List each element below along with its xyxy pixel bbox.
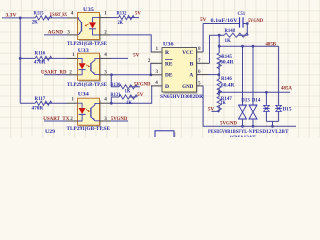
svg-text:5V: 5V bbox=[137, 92, 144, 98]
adjacent part box bottom bbox=[156, 132, 175, 139]
svg-text:R148: R148 bbox=[225, 28, 236, 34]
wire RE riser to U36 pin2 bbox=[150, 63, 153, 75]
svg-text:U36: U36 bbox=[163, 41, 174, 47]
U35 emission arrow bbox=[86, 24, 89, 25]
junction bus/R116 bbox=[19, 57, 22, 60]
wire B riser to R148 bbox=[210, 35, 225, 63]
wire R132 to 5V bbox=[128, 17, 140, 19]
wire 485A line bbox=[219, 91, 290, 93]
svg-text:5V: 5V bbox=[208, 106, 215, 112]
svg-text:U29: U29 bbox=[45, 129, 55, 135]
svg-text:B: B bbox=[190, 61, 194, 67]
svg-text:4: 4 bbox=[155, 80, 158, 86]
svg-text:5VGND: 5VGND bbox=[111, 116, 128, 122]
svg-text:GND: GND bbox=[182, 84, 193, 90]
wire bus to R116 to U33 pin1 bbox=[20, 57, 67, 59]
junction 485B/D13 bbox=[241, 45, 244, 48]
wire VCC riser bbox=[202, 24, 204, 53]
svg-text:R115: R115 bbox=[34, 11, 44, 17]
svg-text:8: 8 bbox=[198, 46, 201, 52]
wire USART_RD to U33 pin2 bbox=[44, 74, 67, 76]
junction 485B/D14 bbox=[252, 45, 255, 48]
svg-text:U34: U34 bbox=[78, 91, 89, 97]
wire chain riser bbox=[218, 35, 220, 46]
svg-text:4: 4 bbox=[104, 97, 107, 103]
resistor R148 bbox=[224, 33, 248, 37]
svg-text:1K: 1K bbox=[225, 38, 232, 44]
wire 485B line bbox=[219, 45, 278, 47]
wire 5V top rail bbox=[203, 23, 248, 25]
resistor R116 bbox=[35, 56, 52, 60]
svg-text:2K: 2K bbox=[32, 20, 39, 26]
resistor R132 bbox=[111, 17, 119, 19]
wire D14 to rail bbox=[252, 119, 254, 126]
svg-text:5V: 5V bbox=[135, 11, 141, 17]
U34 emission arrow bbox=[86, 109, 89, 110]
IC U36 SN65HVD3082DR bbox=[164, 49, 197, 93]
resistor R130 bbox=[111, 75, 119, 87]
wire R115 to U35 pin4 bbox=[45, 17, 67, 19]
svg-text:1: 1 bbox=[104, 10, 107, 16]
wire U33 pin3 to U36 pin3 DE bbox=[111, 74, 153, 76]
svg-text:1K: 1K bbox=[220, 100, 226, 106]
junction chain top bbox=[218, 34, 221, 37]
svg-text:SN65HVD3082DR: SN65HVD3082DR bbox=[160, 94, 203, 100]
wire GND riser and 5VGND rail bbox=[203, 86, 296, 126]
svg-text:60.4R: 60.4R bbox=[220, 60, 233, 66]
wire 485B to D14 bbox=[252, 46, 254, 105]
wire D15 common leg bbox=[266, 121, 278, 126]
svg-text:5VGND: 5VGND bbox=[220, 121, 237, 127]
svg-text:60.4R: 60.4R bbox=[221, 82, 234, 88]
wire U34 pin4 to U36 pin4 D bbox=[111, 86, 152, 103]
wire AGND to U35 pin3 bbox=[44, 34, 67, 36]
wire 3.3V vertical bus bbox=[19, 18, 21, 103]
svg-text:VCC: VCC bbox=[182, 50, 193, 56]
svg-text:4: 4 bbox=[104, 52, 107, 58]
svg-text:TLP291(GB-TP,SE: TLP291(GB-TP,SE bbox=[67, 81, 107, 88]
wire D13 to rail bbox=[242, 119, 244, 126]
svg-text:1K: 1K bbox=[126, 100, 132, 106]
junction RE tie bbox=[149, 73, 152, 76]
svg-text:5VGND: 5VGND bbox=[248, 18, 263, 24]
junction chain/pin6 bbox=[217, 73, 220, 76]
svg-text:5VGND: 5VGND bbox=[134, 81, 151, 87]
U33 phototransistor bbox=[90, 63, 92, 71]
junction R130 tap bbox=[110, 73, 113, 76]
svg-text:D15: D15 bbox=[283, 107, 292, 113]
svg-text:USART_RX: USART_RX bbox=[50, 12, 67, 18]
capacitor C51 bbox=[240, 17, 244, 27]
svg-text:R146: R146 bbox=[221, 76, 232, 82]
resistor R147 bbox=[218, 92, 220, 96]
U35 phototransistor bbox=[81, 22, 83, 31]
svg-text:PESD5V0R1BSFYL-N: PESD5V0R1BSFYL-N bbox=[208, 129, 252, 135]
wire 485B to D13 bbox=[242, 46, 244, 105]
svg-text:R116: R116 bbox=[35, 51, 46, 57]
svg-text:1: 1 bbox=[156, 46, 159, 52]
U35 LED bbox=[93, 18, 100, 35]
svg-text:R130: R130 bbox=[110, 82, 120, 88]
svg-text:1K: 1K bbox=[125, 89, 131, 95]
svg-text:485A: 485A bbox=[281, 86, 292, 92]
svg-text:PESD12VL2BT: PESD12VL2BT bbox=[253, 129, 290, 135]
junction 485B/chain bbox=[218, 45, 221, 48]
svg-text:485B: 485B bbox=[266, 41, 277, 47]
wire 3.3V rail bbox=[2, 17, 35, 19]
resistor R115 bbox=[35, 16, 52, 20]
junction rail/R148 bbox=[246, 22, 249, 25]
svg-text:0.1uF/16V: 0.1uF/16V bbox=[211, 18, 238, 24]
svg-text:A: A bbox=[189, 73, 193, 79]
wire U35 pin2 to U36 pin1 bbox=[111, 35, 152, 52]
svg-text:1: 1 bbox=[72, 52, 75, 58]
junction R131 tap bbox=[110, 102, 113, 105]
svg-text:470R: 470R bbox=[32, 106, 44, 112]
svg-text:3: 3 bbox=[156, 69, 159, 75]
svg-text:5V: 5V bbox=[133, 53, 140, 59]
svg-text:1SMA12AT: 1SMA12AT bbox=[230, 135, 257, 137]
svg-text:2K: 2K bbox=[118, 20, 124, 26]
wire bus corner to R117 to U34 pin1 bbox=[20, 102, 67, 104]
resistor R146 bbox=[218, 75, 220, 79]
U33 LED bbox=[78, 58, 83, 74]
svg-text:C51: C51 bbox=[238, 11, 246, 17]
svg-text:2: 2 bbox=[148, 58, 151, 64]
resistor R117 bbox=[35, 101, 52, 105]
svg-text:D13: D13 bbox=[241, 97, 250, 103]
svg-text:D14: D14 bbox=[252, 97, 261, 103]
svg-text:DE: DE bbox=[165, 73, 173, 79]
svg-text:R117: R117 bbox=[35, 96, 46, 102]
svg-text:D: D bbox=[165, 84, 169, 90]
U34 LED bbox=[78, 103, 83, 121]
U33 emission arrow bbox=[86, 65, 89, 66]
svg-text:4: 4 bbox=[71, 10, 74, 16]
wire USART_TX to U34 pin2 bbox=[44, 120, 67, 122]
svg-text:R131: R131 bbox=[110, 92, 120, 98]
svg-text:RE: RE bbox=[165, 61, 173, 67]
svg-text:R132: R132 bbox=[117, 11, 127, 17]
U34 phototransistor bbox=[90, 108, 92, 118]
resistor R131 bbox=[111, 97, 119, 103]
wire A to chain bbox=[209, 74, 219, 76]
D15 element a bbox=[265, 92, 267, 105]
svg-text:TLP291(GB-TP,SE: TLP291(GB-TP,SE bbox=[67, 40, 107, 47]
svg-text:470R: 470R bbox=[34, 60, 46, 66]
svg-text:1: 1 bbox=[71, 97, 74, 103]
svg-text:TLP291(GB-TP,SE: TLP291(GB-TP,SE bbox=[67, 125, 111, 132]
junction 3.3V rail bbox=[19, 17, 22, 20]
D15 element b bbox=[278, 46, 280, 105]
wire R148 right riser to 5V rail bbox=[238, 24, 247, 36]
svg-text:5V: 5V bbox=[200, 17, 207, 23]
resistor R145 bbox=[218, 46, 220, 53]
junction chain/485A bbox=[218, 91, 221, 94]
